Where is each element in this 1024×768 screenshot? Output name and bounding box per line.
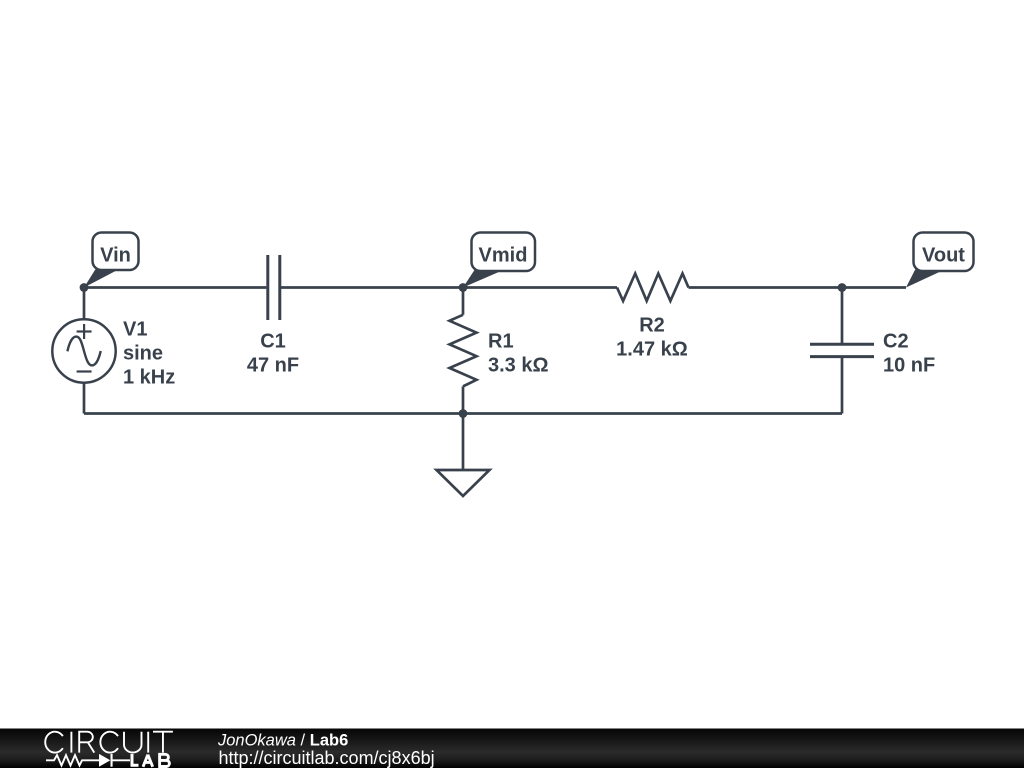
svg-text:3.3 kΩ: 3.3 kΩ bbox=[488, 355, 549, 377]
svg-text:JonOkawa / Lab6: JonOkawa / Lab6 bbox=[217, 732, 348, 750]
svg-text:Vmid: Vmid bbox=[479, 245, 528, 267]
svg-text:R1: R1 bbox=[488, 331, 514, 353]
svg-text:47 nF: 47 nF bbox=[247, 355, 299, 377]
svg-text:Vout: Vout bbox=[922, 245, 965, 267]
svg-text:C2: C2 bbox=[883, 331, 909, 353]
svg-text:http://circuitlab.com/cj8x6bj: http://circuitlab.com/cj8x6bj bbox=[219, 748, 435, 768]
svg-text:1 kHz: 1 kHz bbox=[123, 367, 175, 389]
svg-text:V1: V1 bbox=[123, 319, 147, 341]
svg-text:Vin: Vin bbox=[100, 244, 131, 266]
svg-text:1.47 kΩ: 1.47 kΩ bbox=[616, 339, 688, 361]
svg-text:C1: C1 bbox=[260, 331, 286, 353]
svg-text:R2: R2 bbox=[639, 315, 665, 337]
svg-text:sine: sine bbox=[123, 343, 163, 365]
svg-text:10 nF: 10 nF bbox=[883, 355, 935, 377]
